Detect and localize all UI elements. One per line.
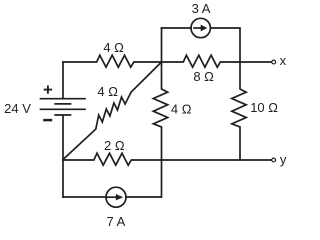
svg-text:7 A: 7 A	[107, 214, 126, 229]
wire to terminal x	[240, 61, 271, 63]
resistor R 8ohm with leads	[162, 55, 241, 67]
svg-text:y: y	[280, 152, 287, 167]
terminal y circle	[272, 158, 276, 162]
svg-text:2 Ω: 2 Ω	[104, 138, 125, 153]
arrow of 7A source	[107, 196, 117, 198]
terminal x circle	[272, 60, 276, 64]
wire middle vertical with resistor R 4ohm vertical	[153, 28, 167, 160]
current source I2 7A circle	[106, 187, 126, 207]
wire 2ohm branch with resistor R 2ohm	[63, 153, 162, 165]
wire bottom left to 7A source	[63, 196, 106, 198]
wire 3A loop top left	[162, 27, 192, 29]
svg-text:3 A: 3 A	[192, 1, 211, 16]
wire 3A loop top right and down	[210, 28, 240, 62]
svg-text:4 Ω: 4 Ω	[171, 101, 192, 116]
wire 7A to corner and up	[126, 160, 162, 197]
battery V1 24V plates	[41, 98, 86, 100]
wire top-left horizontal with resistor R 4ohm top	[63, 55, 162, 67]
svg-text:x: x	[280, 53, 287, 68]
svg-text:24 V: 24 V	[4, 101, 31, 116]
wire y horizontal	[162, 159, 272, 161]
svg-text:10 Ω: 10 Ω	[250, 100, 278, 115]
arrow of 3A source	[194, 27, 202, 29]
resistor R 4ohm diagonal	[63, 62, 162, 160]
battery minus sign	[43, 119, 52, 122]
svg-text:8 Ω: 8 Ω	[193, 69, 214, 84]
current source I1 3A circle	[191, 18, 210, 37]
svg-text:4 Ω: 4 Ω	[97, 84, 118, 99]
battery plus sign	[44, 86, 52, 94]
wire battery bottom lead	[62, 115, 64, 197]
svg-text:4 Ω: 4 Ω	[103, 40, 124, 55]
wire right vertical with resistor R 10ohm	[232, 62, 246, 160]
wire battery top lead	[62, 62, 64, 99]
